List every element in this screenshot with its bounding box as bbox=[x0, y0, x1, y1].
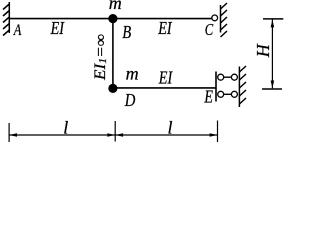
wall at C bbox=[221, 3, 228, 37]
svg-text:D: D bbox=[124, 90, 135, 110]
svg-text:EI1=∞: EI1=∞ bbox=[92, 34, 109, 81]
H dimension line bbox=[262, 19, 283, 89]
pin support circle at C bbox=[212, 15, 218, 21]
upper link bbox=[221, 76, 235, 78]
top beam A-B-C bbox=[9, 18, 212, 20]
svg-text:m: m bbox=[126, 63, 139, 83]
svg-text:m: m bbox=[109, 0, 122, 13]
arrows of left span bbox=[9, 133, 17, 137]
svg-text:EI: EI bbox=[158, 68, 173, 88]
svg-text:H: H bbox=[253, 43, 273, 58]
lower beam D-E bbox=[113, 87, 216, 89]
bottom dimension ticks bbox=[9, 121, 217, 143]
fixed support wall at A bbox=[3, 2, 9, 36]
svg-text:l: l bbox=[63, 118, 68, 138]
svg-text:B: B bbox=[122, 22, 131, 42]
dimension line l (right span) bbox=[115, 134, 217, 136]
H bottom arrow bbox=[271, 81, 275, 89]
lower link bbox=[221, 93, 235, 95]
arrows of right span bbox=[115, 133, 123, 137]
double-link roller support at E : end bar bbox=[215, 72, 217, 102]
svg-text:l: l bbox=[168, 118, 173, 138]
wall at E bbox=[239, 66, 246, 107]
mass m at D bbox=[108, 84, 117, 93]
rigid column B-D bbox=[112, 19, 114, 89]
mass m at B bbox=[108, 14, 117, 23]
svg-text:EI: EI bbox=[50, 18, 65, 38]
svg-text:C: C bbox=[205, 20, 214, 39]
H top arrow bbox=[271, 20, 275, 28]
dimension line l (left span) bbox=[9, 134, 115, 136]
svg-text:EI: EI bbox=[157, 18, 172, 38]
svg-text:A: A bbox=[13, 22, 22, 39]
svg-text:E: E bbox=[204, 87, 213, 107]
